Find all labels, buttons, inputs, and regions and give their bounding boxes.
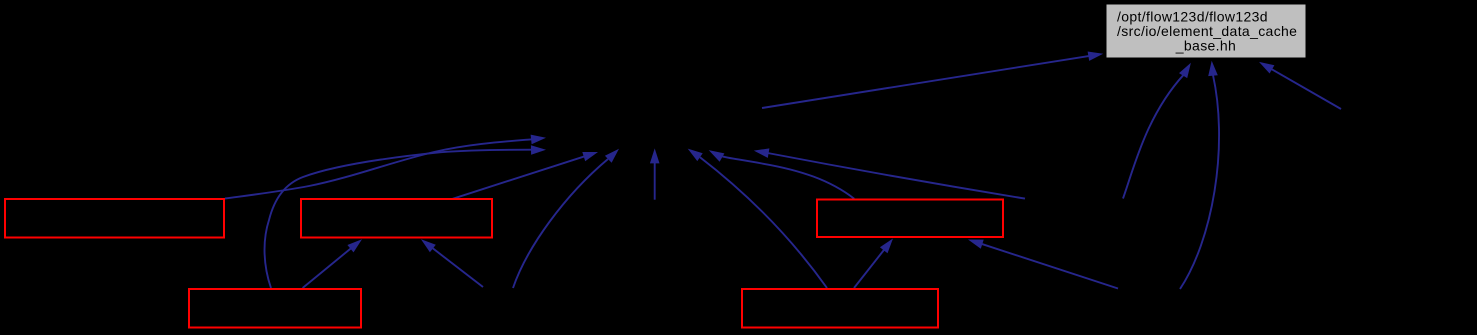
arrowhead into node2 bottom from node3 (347, 239, 362, 252)
node1 red box (5, 199, 224, 238)
arrowhead into center node left edge upper (531, 135, 546, 145)
edge from hidden node H1 to center node (513, 159, 608, 288)
arrowhead into center node left edge lower (531, 145, 546, 155)
arrowhead into center node from node4 (709, 150, 725, 162)
arrowhead into grey node bottom from H5 (1259, 62, 1274, 74)
node3 red box (189, 289, 361, 328)
arrowhead into grey node bottom from H3 (1179, 63, 1191, 78)
edge from hidden node H3 to grey node (1123, 75, 1184, 199)
node2 red box (301, 199, 492, 238)
edge from node4 to center node (722, 156, 854, 198)
grey node box for element_data_cache_base.hh (1106, 4, 1306, 58)
edge from hidden node H4 to node4 (981, 244, 1118, 289)
edge from node2 to center node (453, 156, 585, 199)
arrowhead into grey node bottom from H4 (1208, 61, 1218, 76)
edge from node3 to center node (C-curve) (265, 150, 532, 288)
arrowhead into center node from node5 (688, 149, 703, 162)
arrowhead into center node from node2 (582, 152, 598, 161)
edge from hidden node H5 to grey node (1271, 69, 1341, 109)
edge from center node to grey node (762, 56, 1089, 108)
edge from hidden node H3 to center node (768, 153, 1025, 199)
edge from node5 to node4 (854, 250, 884, 289)
edge from node5 to center node (700, 157, 827, 288)
arrowhead into node4 bottom from H4 (968, 240, 984, 249)
edge from hidden node H1 to node2 (432, 248, 483, 287)
grey node label (1117, 9, 1297, 54)
arrowhead into node2 bottom from H1 (421, 239, 436, 252)
arrowhead into center node vertical (650, 148, 660, 163)
arrowhead into center node from H1 (605, 149, 619, 163)
arrowhead into node4 bottom from node5 (880, 239, 893, 254)
arrowhead into grey node left edge (1088, 52, 1104, 61)
svg-text:_base.hh: _base.hh (1175, 38, 1236, 54)
node5 red box (742, 289, 938, 328)
arrowhead into center node right edge (754, 148, 770, 158)
edge from hidden node H4 to grey node (arc) (1180, 75, 1219, 289)
edge from node1 to center node (225, 139, 532, 198)
edge from node3 to node2 (303, 248, 352, 288)
node4 red box (817, 200, 1003, 238)
edge from hidden node H2 to center node (vertical) (654, 162, 656, 199)
